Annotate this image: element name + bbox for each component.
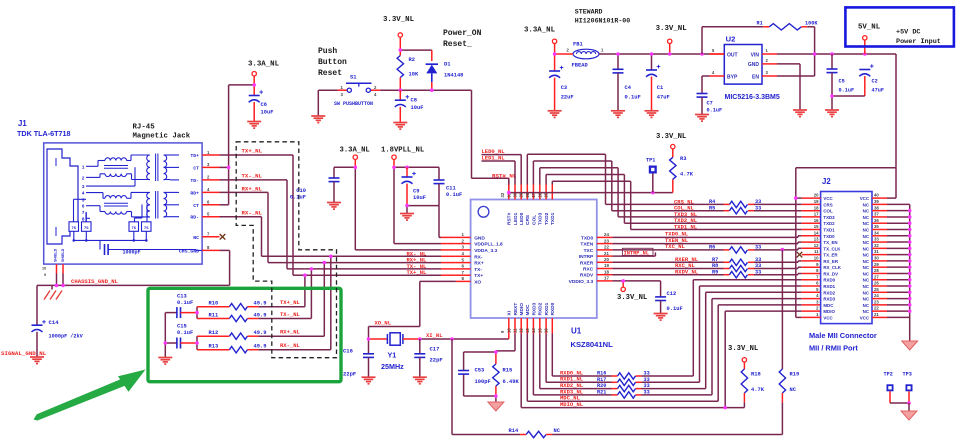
svg-text:TXC_NL: TXC_NL (665, 243, 686, 250)
svg-text:VCC: VCC (860, 196, 870, 201)
svg-text:C3: C3 (561, 85, 567, 91)
U1 bottom pin stubs and numbers (500, 318, 552, 334)
svg-text:47uF: 47uF (657, 95, 670, 101)
wire net TXD1_NL (552, 181, 820, 229)
svg-text:R16: R16 (597, 371, 606, 377)
junction VCC pin20 (794, 196, 798, 200)
svg-text:TP2: TP2 (884, 372, 893, 378)
resistor R18 4.7K pull-up MDIO (723, 362, 764, 409)
svg-text:16: 16 (814, 218, 819, 223)
svg-text:SHIELD: SHIELD (54, 248, 58, 262)
svg-text:13: 13 (525, 328, 530, 333)
svg-text:EN: EN (752, 74, 759, 80)
svg-text:RX-: RX- (474, 254, 483, 260)
resistor R11 49.9 (197, 313, 311, 322)
svg-text:27: 27 (874, 274, 879, 279)
svg-text:GND: GND (474, 235, 485, 241)
wire 3.3V to R2/D1 (399, 37, 432, 61)
resistor R4 33 (709, 199, 761, 208)
svg-text:R19: R19 (790, 372, 800, 378)
svg-text:33: 33 (644, 371, 650, 377)
svg-text:RXD2: RXD2 (823, 290, 835, 295)
svg-text:10uF: 10uF (261, 110, 274, 116)
junction C9 top (405, 166, 409, 170)
svg-text:TX_EN: TX_EN (823, 240, 837, 245)
transformer T2 bottom (RX) (104, 191, 179, 219)
svg-text:NC: NC (863, 253, 870, 258)
net label TX-_NL (term) (280, 311, 301, 318)
wire net RXD0_NL (552, 280, 820, 376)
svg-text:TXD3: TXD3 (823, 215, 835, 220)
ground below J2 NC rail (902, 341, 918, 350)
svg-text:VDDPLL_1.8: VDDPLL_1.8 (474, 242, 503, 248)
svg-text:RJ-45: RJ-45 (133, 124, 156, 132)
junction XI/R14 (450, 337, 454, 341)
svg-text:49.9: 49.9 (254, 313, 267, 319)
U2 pin stubs (710, 54, 778, 76)
wire TP2/TP3 to ground (890, 401, 911, 411)
wire net RXC_NL through R8 (612, 267, 820, 268)
resistor R12 49.9 (197, 330, 324, 339)
svg-text:RX+_NL: RX+_NL (280, 329, 301, 336)
power node 3.3A_NL (left) (248, 61, 280, 76)
svg-text:R21: R21 (597, 390, 606, 396)
svg-text:21: 21 (604, 251, 609, 256)
net label RXD0_NL (560, 369, 584, 376)
svg-text:Power_ON: Power_ON (443, 29, 482, 38)
svg-text:24: 24 (604, 232, 609, 237)
svg-text:Reset: Reset (318, 69, 342, 78)
svg-text:24: 24 (874, 293, 879, 298)
svg-text:S1: S1 (350, 75, 356, 81)
wire net RX+_NL (220, 192, 305, 262)
svg-text:9: 9 (44, 273, 46, 277)
junction shield pin2 (61, 284, 65, 288)
net label RXD3_NL (560, 388, 584, 395)
svg-text:R15: R15 (503, 368, 513, 374)
power node 5V_NL (863, 36, 867, 40)
svg-text:NC: NC (863, 209, 870, 214)
svg-text:LED1_NL: LED1_NL (482, 155, 506, 162)
svg-text:14: 14 (814, 230, 819, 235)
svg-text:CT: CT (193, 203, 199, 209)
junction J2 pin 24 (908, 297, 912, 301)
svg-text:MDIO: MDIO (519, 303, 525, 316)
net label RST#_NL (492, 172, 517, 179)
power node 3.3A_NL (top) (524, 27, 557, 44)
label Push Button Reset (318, 47, 347, 78)
junction J2 pin 31 (908, 253, 912, 257)
ground below C7 (695, 115, 709, 122)
svg-text:NC: NC (863, 228, 870, 233)
junction C1 (650, 52, 654, 56)
svg-text:TX+_NL: TX+_NL (242, 148, 263, 155)
net label INTRP_NL (624, 250, 649, 256)
junction J2 pin 30 (908, 259, 912, 263)
net label TX+_NL at U1 (407, 269, 428, 276)
capacitor C4 0.1uF (613, 69, 641, 111)
svg-text:1: 1 (82, 164, 85, 170)
svg-text:GND: GND (748, 62, 760, 68)
svg-text:C8: C8 (411, 98, 417, 104)
svg-text:15: 15 (538, 328, 543, 333)
svg-text:3.3V_NL: 3.3V_NL (383, 16, 415, 24)
junction shield pin (55, 284, 59, 288)
svg-text:U1: U1 (571, 327, 582, 336)
svg-text:R17: R17 (597, 377, 606, 383)
svg-text:RX+: RX+ (474, 261, 484, 267)
svg-text:COL: COL (823, 209, 833, 214)
junction J2 pin 34 (908, 234, 912, 238)
resistor R19 NC (TX_CLK to XI) (779, 250, 799, 435)
resistor R17 33 (597, 377, 650, 386)
dashed isolation boundary (236, 142, 336, 358)
svg-text:NC: NC (863, 202, 870, 207)
svg-text:RD+: RD+ (190, 190, 199, 196)
svg-text:NC: NC (863, 215, 870, 220)
wire U2 GND to ground (777, 64, 800, 110)
svg-text:RX_DV: RX_DV (823, 271, 838, 276)
svg-text:R18: R18 (751, 372, 761, 378)
svg-text:4.7K: 4.7K (751, 387, 765, 393)
svg-text:RD-: RD- (190, 215, 199, 221)
net label RX-_NL (term) (280, 342, 301, 349)
svg-text:XO_NL: XO_NL (375, 320, 392, 327)
svg-text:29: 29 (874, 262, 879, 267)
svg-text:+5V DC: +5V DC (896, 29, 920, 37)
capacitor C7 0.1uF (697, 94, 723, 115)
capacitor C15 0.1uF (177, 324, 197, 349)
svg-text:C2: C2 (872, 79, 878, 85)
wire net 3.3V_NL rail (FB1 to U2 OUT) (599, 27, 724, 70)
svg-text:TD+: TD+ (190, 153, 199, 159)
svg-text:22uF: 22uF (561, 95, 574, 101)
wire net RXD3_NL (533, 299, 820, 395)
svg-text:RX-_NL: RX-_NL (242, 210, 263, 217)
svg-text:RXDV: RXDV (580, 273, 594, 279)
svg-text:C7: C7 (707, 101, 713, 107)
svg-text:TX-_NL: TX-_NL (242, 173, 263, 180)
capacitor C53 100pF (458, 368, 491, 386)
svg-text:C1: C1 (657, 85, 663, 91)
net label RX-_NL at U1 (407, 250, 428, 257)
svg-text:RXD1: RXD1 (823, 284, 835, 289)
resistor R8 33 (712, 263, 761, 272)
wire net TX+_NL (220, 155, 305, 275)
svg-text:4.7K: 4.7K (680, 172, 694, 178)
J1 shield pins 9 10 (42, 248, 65, 277)
svg-text:0.1uF: 0.1uF (177, 300, 193, 306)
ground below C1 (645, 111, 659, 118)
svg-text:RX_ER: RX_ER (823, 259, 838, 264)
svg-text:3.3V_NL: 3.3V_NL (656, 25, 688, 33)
svg-text:RST#_NL: RST#_NL (492, 172, 517, 179)
label STEWARD HI1206N101R-00 (575, 9, 630, 25)
svg-text:3.3A_NL: 3.3A_NL (340, 147, 370, 155)
wire net RXDV_NL through R9 (612, 274, 820, 275)
ground below C10 (327, 203, 341, 210)
power node 1.8VPLL_NL (381, 147, 424, 160)
svg-text:39: 39 (874, 199, 879, 204)
svg-text:TXD0: TXD0 (581, 235, 594, 241)
svg-text:0.1uF: 0.1uF (839, 88, 855, 94)
svg-text:25MHz: 25MHz (381, 362, 404, 371)
svg-text:23: 23 (874, 299, 879, 304)
svg-text:STEWARD: STEWARD (575, 9, 603, 16)
svg-text:CHASSIS_GND_NL: CHASSIS_GND_NL (71, 278, 119, 285)
svg-text:Reset_: Reset_ (443, 40, 472, 49)
wire 3.3A to VDDA_3.3 pin3 (334, 159, 456, 250)
wire J2 pin40 VCC to 5V vertical (872, 168, 896, 198)
svg-text:C6: C6 (261, 102, 267, 108)
capacitor C5 0.1uF (827, 54, 855, 110)
capacitor C12 0.1uF (655, 291, 683, 313)
resistor R6 33 (709, 245, 761, 254)
svg-text:OUT: OUT (727, 52, 738, 58)
svg-text:Magnetic Jack: Magnetic Jack (133, 133, 191, 141)
wire net 3.3A_NL to J1 center taps (220, 76, 257, 205)
resistor R20 33 (597, 383, 650, 392)
wire net TXD2_NL (546, 175, 821, 224)
J2 left pin names and numbers (814, 193, 842, 321)
svg-text:20: 20 (604, 257, 609, 262)
no-connect X on J1 pin 7 (220, 234, 226, 240)
J1 pin stubs and numbers (202, 150, 225, 251)
tie column R10/R11 and R12/R13 (195, 307, 199, 350)
svg-text:TXD1: TXD1 (550, 212, 556, 225)
J1 internal wires pins to magnetics (74, 161, 148, 224)
svg-text:RXD3: RXD3 (531, 302, 537, 315)
wire net RXER_NL through R7 (612, 261, 820, 262)
ground below U2 GND (793, 110, 807, 117)
wire net VCC to J2 pins 20 and 1 (794, 168, 896, 318)
wire net TXD0_NL (612, 236, 820, 238)
svg-text:SIGNAL_GND_NL: SIGNAL_GND_NL (1, 350, 47, 357)
svg-text:21: 21 (874, 312, 879, 317)
net label RX+_NL at U1 (407, 257, 428, 264)
svg-text:3.3A_NL: 3.3A_NL (248, 61, 280, 69)
svg-text:33: 33 (755, 205, 761, 211)
J1 jack pin numbers 1-8 (82, 164, 85, 222)
junction TX_CLK/R19 (781, 248, 785, 252)
svg-text:2: 2 (82, 175, 85, 181)
svg-text:3.3A_NL: 3.3A_NL (524, 27, 556, 35)
wire C9/C11 ground rail to GND pin1 (405, 204, 456, 238)
svg-text:NC: NC (863, 297, 870, 302)
wire net CHASSIS_GND_NL (37, 250, 230, 289)
wire net COL_NL (533, 161, 820, 211)
wire net INTRP_NL (612, 248, 655, 256)
svg-text:LED0: LED0 (519, 212, 525, 225)
capacitor C9 10uF (402, 167, 426, 205)
wire net RXD1_NL (546, 286, 821, 382)
junction 3.3A/C6 (252, 83, 256, 87)
svg-text:TP3: TP3 (903, 372, 912, 378)
svg-text:16: 16 (544, 328, 549, 333)
capacitor C2 47uF (830, 64, 884, 97)
wire net MDC_NL (527, 305, 820, 401)
ground below C17 (413, 377, 427, 384)
label Power_ON Reset_ (443, 29, 482, 49)
svg-text:NC: NC (863, 259, 870, 264)
junction J2 pin 28 (908, 272, 912, 276)
svg-text:25: 25 (874, 287, 879, 292)
wire net RX-_NL (220, 217, 305, 257)
svg-text:C14: C14 (49, 319, 60, 326)
svg-text:7: 7 (82, 210, 85, 216)
junction C2/5V node (863, 52, 867, 56)
svg-text:33: 33 (755, 199, 761, 205)
svg-text:VCC: VCC (860, 315, 870, 320)
resistor R16 33 (597, 371, 650, 380)
junction pin17 (621, 279, 625, 283)
svg-text:FBEAD: FBEAD (572, 63, 589, 69)
resistor R3 4.7K pull-up (670, 149, 694, 180)
svg-text:49.9: 49.9 (254, 301, 267, 307)
svg-text:6: 6 (82, 204, 85, 210)
junction J2 pin 27 (908, 278, 912, 282)
net label TX-_NL at U1 (407, 263, 428, 270)
power node 3.3V_NL (R18) (728, 345, 758, 362)
svg-text:TXD3: TXD3 (538, 212, 544, 225)
svg-text:TDK TLA-6T718: TDK TLA-6T718 (17, 129, 71, 138)
ground below C9/C11 (400, 214, 414, 221)
svg-text:35: 35 (874, 224, 879, 229)
svg-text:TXD1: TXD1 (823, 228, 835, 233)
svg-text:3.3V_NL: 3.3V_NL (728, 345, 758, 353)
resistor R15 6.49K (493, 364, 520, 386)
svg-text:10: 10 (814, 256, 819, 261)
svg-text:47uF: 47uF (872, 88, 884, 94)
svg-text:Male MII Connector: Male MII Connector (809, 331, 877, 340)
svg-text:NC: NC (863, 246, 870, 251)
J2 right pin names and numbers (860, 193, 880, 321)
resistor R14 series XI NC (452, 428, 782, 437)
svg-text:C5: C5 (839, 79, 845, 85)
svg-text:33: 33 (874, 237, 879, 242)
svg-text:R6: R6 (709, 245, 715, 251)
svg-text:12: 12 (814, 243, 819, 248)
junction TP3 gnd (907, 401, 911, 405)
svg-text:KSZ8041NL: KSZ8041NL (571, 340, 614, 349)
svg-text:4: 4 (82, 191, 85, 197)
svg-text:Y1: Y1 (388, 351, 397, 360)
net label LED1_NL (482, 155, 506, 162)
svg-text:COL: COL (531, 215, 537, 225)
net label TXD0_NL (665, 231, 689, 238)
svg-text:VDDA_3.3: VDDA_3.3 (474, 248, 497, 254)
svg-text:NC: NC (863, 303, 870, 308)
svg-text:MII / RMII Port: MII / RMII Port (809, 344, 858, 353)
svg-text:C53: C53 (475, 368, 485, 374)
svg-text:FB1: FB1 (573, 42, 583, 48)
wire net RXD2_NL (540, 292, 821, 388)
svg-text:23: 23 (604, 238, 609, 243)
capacitor C13 0.1uF (177, 294, 197, 319)
junction TX+ (303, 273, 307, 277)
resistor R21 33 (597, 390, 650, 399)
resistor R2 10K (397, 56, 419, 91)
svg-text:33: 33 (644, 383, 650, 389)
svg-text:NC: NC (863, 284, 870, 289)
svg-text:33: 33 (755, 263, 761, 269)
svg-text:Push: Push (318, 47, 337, 56)
svg-text:R5: R5 (709, 205, 715, 211)
svg-text:HI1206N101R-00: HI1206N101R-00 (575, 18, 630, 25)
svg-text:32: 32 (874, 243, 879, 248)
svg-text:MDIO_NL: MDIO_NL (560, 401, 584, 408)
net label RXER_NL (675, 256, 699, 263)
ground below C3 (548, 111, 562, 118)
ground below TP2/TP3 (901, 411, 917, 420)
svg-text:NC: NC (863, 221, 870, 226)
junction TP1 (651, 191, 655, 195)
svg-text:1N4148: 1N4148 (444, 73, 463, 79)
svg-text:13: 13 (814, 237, 819, 242)
svg-text:RXD2: RXD2 (538, 302, 544, 315)
svg-text:RXD3: RXD3 (823, 297, 835, 302)
junction CT pin3 (227, 166, 231, 170)
svg-text:28: 28 (874, 268, 879, 273)
wire net TXC_NL through R6 (612, 248, 820, 252)
svg-text:NC: NC (863, 271, 870, 276)
svg-text:MDC: MDC (525, 304, 531, 315)
termination network resistors R10-R13 and caps C13 C15 (164, 313, 177, 358)
svg-text:C12: C12 (667, 291, 677, 297)
svg-text:17: 17 (814, 212, 819, 217)
svg-text:18: 18 (604, 269, 609, 274)
junction 3.3V/R2/D1 (399, 48, 403, 52)
resistor R13 49.9 (197, 344, 331, 353)
net label TX+_NL (term) (280, 299, 301, 306)
svg-text:R4: R4 (709, 199, 715, 205)
riser RX+ to R12 (323, 263, 325, 337)
junction R1/EN (813, 52, 817, 56)
svg-text:LED1: LED1 (513, 212, 519, 225)
junction MDIO/R18 (723, 406, 727, 410)
svg-text:R13: R13 (209, 344, 219, 350)
svg-text:34: 34 (874, 230, 879, 235)
svg-text:31: 31 (874, 249, 879, 254)
svg-text:19: 19 (604, 263, 609, 268)
net label TX+_NL at J1 (242, 148, 263, 155)
svg-text:XO: XO (474, 279, 481, 285)
capacitor C16 22pF (343, 339, 374, 378)
svg-text:NC: NC (863, 265, 870, 270)
wire rows to U1 RX/TX pins with taps to termination (303, 254, 456, 349)
net label TXD1_NL (674, 224, 698, 231)
svg-text:5V_NL: 5V_NL (858, 24, 881, 32)
svg-text:17: 17 (604, 276, 609, 281)
junction J2 pin 23 (908, 303, 912, 307)
svg-text:18: 18 (814, 205, 819, 210)
junction J2 pin 38 (908, 209, 912, 213)
svg-text:TXEN: TXEN (580, 242, 593, 248)
junction C5 (830, 52, 834, 56)
junction C2 gnd (830, 94, 834, 98)
wire REXT to R15 network (464, 334, 515, 403)
connector J1 TDK TLA-6T718 RJ-45 Magnetic Jack (17, 119, 202, 264)
svg-text:49.9: 49.9 (254, 330, 267, 336)
svg-text:C17: C17 (430, 346, 440, 353)
junction R1 tap (700, 52, 704, 56)
svg-text:CHS_GND: CHS_GND (179, 248, 199, 254)
svg-text:MDC: MDC (823, 303, 834, 308)
testpoint TP3 (903, 372, 913, 404)
svg-text:BYP: BYP (727, 74, 738, 80)
ground below C8 (393, 123, 407, 130)
svg-text:RXD0: RXD0 (823, 278, 835, 283)
